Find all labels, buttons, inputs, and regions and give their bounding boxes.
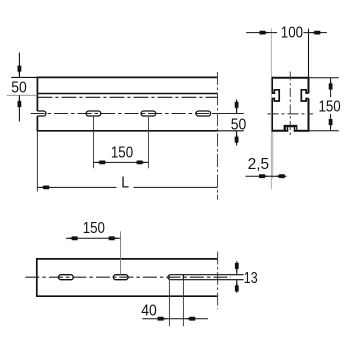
- svg-text:150: 150: [111, 145, 133, 162]
- rail fold line: [37, 93, 217, 95]
- dim L: left arrow: [37, 186, 49, 190]
- break line (chain) right end of rail: [217, 72, 219, 200]
- slot row centerline dash-dot: [31, 113, 218, 115]
- section left edge lower segment: [271, 99, 273, 132]
- dim 40: right arrow (points left): [183, 317, 195, 321]
- dim 2,5: right arrow (points left): [273, 174, 285, 178]
- bottom slot row centerline: [25, 276, 231, 278]
- dim 50 right: upper arrow (down): [235, 102, 239, 114]
- rail bottom edge: [37, 130, 217, 132]
- dim 150 section: down arrow: [329, 119, 333, 131]
- dim 100: left arrow (points right): [260, 31, 272, 35]
- bottom slot 2: [113, 275, 128, 280]
- bottom bar left edge: [36, 258, 38, 297]
- dim 150 bottom: dimension line: [66, 237, 121, 239]
- svg-text:100: 100: [281, 25, 303, 42]
- dim 50 left: upper dimension line: [18, 53, 20, 78]
- dim 150 top: left extension line: [93, 117, 95, 169]
- dim 150 section: top extension line: [309, 77, 339, 79]
- svg-text:150: 150: [318, 99, 340, 116]
- slot 1: [86, 111, 101, 116]
- dim 2,5: left arrow (points right): [259, 174, 271, 178]
- dim L: dimension line right part: [134, 186, 218, 188]
- svg-text:50: 50: [231, 117, 247, 134]
- section right T-slot: [301, 90, 308, 101]
- dim 150 section: up arrow: [329, 78, 333, 90]
- dim 150 bottom: right arrow: [109, 236, 121, 240]
- dim 50 left: top extension line: [11, 76, 37, 78]
- section bottom edge left segment: [272, 130, 288, 132]
- dim 100: right extension line: [308, 29, 310, 77]
- slot 2: [141, 111, 156, 116]
- thin extension line x=272.8 (2,5 right): [272, 132, 274, 179]
- svg-text:L: L: [121, 175, 129, 192]
- dim 50 left: bottom extension line: [7, 94, 36, 96]
- bottom long slot top line / 13 top extension: [168, 275, 171, 280]
- dim 150 top: left arrow: [94, 161, 106, 165]
- long slot bottom line: [170, 279, 243, 281]
- rail top edge: [37, 76, 217, 78]
- dim L: dimension line left part: [37, 186, 116, 188]
- rail groove centerline dash-dot: [37, 96, 217, 98]
- dim 100: right arrow (points left): [309, 31, 321, 35]
- dim 40: right extension line: [182, 280, 184, 327]
- slot half at left edge: [37, 111, 46, 116]
- bottom bar bottom edge: [37, 295, 218, 297]
- rail left edge upper segment: [36, 77, 38, 111]
- dim 40: dimension line: [142, 318, 208, 320]
- section bottom hat (filled with white slot and slits): [284, 125, 298, 131]
- slot 40 end tick: [182, 275, 184, 280]
- dim 50 left: upper arrow (down): [18, 66, 22, 78]
- dim 150 top: dimension line: [94, 161, 149, 163]
- section top edge: [272, 77, 309, 79]
- section left T-slot: [272, 90, 279, 101]
- dim 150 section: dimension line lower: [330, 114, 332, 131]
- bottom bar break line: [217, 252, 219, 309]
- dim 50 left: lower dimension line: [18, 95, 20, 121]
- section right edge lower segment: [308, 99, 310, 132]
- svg-text:2,5: 2,5: [248, 156, 270, 173]
- bottom slot 1: [59, 275, 74, 280]
- section bottom edge right segment: [294, 130, 309, 132]
- dim 100: dimension line left part: [246, 32, 277, 34]
- dim 150 top: right extension line: [147, 117, 149, 169]
- dim 150 bottom: right extension line: [120, 231, 122, 274]
- dim 150 top: right arrow: [137, 161, 149, 165]
- dim 100: dimension line right part: [304, 32, 327, 34]
- slot 3: [196, 111, 211, 116]
- svg-text:150: 150: [83, 220, 105, 237]
- slot row line extension (solid, to dim 50 right): [216, 113, 244, 115]
- dim 13: upper arrow (down): [235, 263, 239, 275]
- dim 13: upper dimension line: [236, 261, 238, 274]
- dim 50 right: upper dimension line: [236, 100, 238, 114]
- dim 150 section: bottom extension line: [309, 130, 339, 132]
- section vertical centerline: [289, 72, 291, 137]
- dim 150 section: dimension line upper: [330, 78, 332, 97]
- svg-text:50: 50: [11, 80, 27, 97]
- svg-text:40: 40: [141, 303, 157, 320]
- dim 13: lower dimension line: [236, 280, 238, 293]
- thin extension line x=271.3 (100 left / 2,5): [270, 29, 272, 190]
- dim 150 bottom: left arrow: [66, 236, 78, 240]
- rail left edge lower segment: [36, 116, 38, 132]
- dim 40: left arrow (points right): [158, 317, 170, 321]
- section horizontal centerline: [268, 113, 314, 115]
- dim 50 right: lower dimension line: [236, 131, 238, 146]
- dim 50 right: lower arrow (up): [235, 131, 239, 143]
- svg-text:13: 13: [244, 269, 258, 287]
- section left edge upper segment: [271, 77, 273, 93]
- dim 40: left extension line: [168, 275, 170, 327]
- dim 50 left: lower arrow (up): [18, 95, 22, 107]
- bottom bar top edge: [37, 258, 218, 260]
- dim 50 right: bottom extension line: [218, 130, 244, 132]
- left edge extension down to L dimension: [36, 132, 38, 192]
- dim 13: lower arrow (up): [235, 280, 239, 292]
- dim 2,5: dimension line: [246, 175, 287, 177]
- long slot top line: [170, 274, 243, 276]
- section right edge upper segment: [308, 77, 310, 93]
